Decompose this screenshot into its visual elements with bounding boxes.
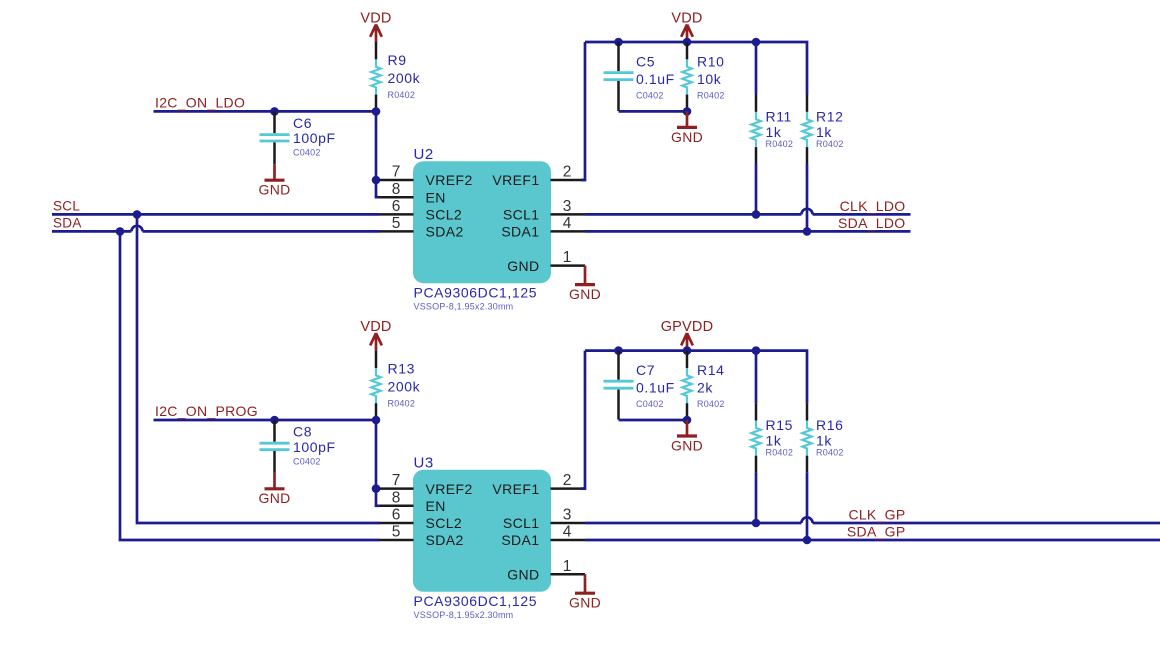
svg-text:7: 7 (392, 164, 401, 181)
svg-text:VSSOP-8,1.95x2.30mm: VSSOP-8,1.95x2.30mm (414, 301, 514, 311)
wire SDA bus vertical to U3 SDA2 (120, 231, 380, 540)
junction rail / C5 (614, 38, 623, 47)
svg-text:1k: 1k (766, 432, 782, 448)
junction rail / R11 (752, 38, 761, 47)
svg-text:GND: GND (507, 258, 539, 274)
wire net SDA_LDO (585, 230, 911, 233)
svg-text:VREF1: VREF1 (492, 481, 539, 497)
junction R14 bottom / ground (683, 416, 692, 425)
junction rail / VDD / R10 (683, 38, 692, 47)
ground symbol at U3 pin 1 (569, 574, 601, 610)
ground symbol below R10 (671, 111, 703, 144)
U2 pin 2 stub (551, 179, 586, 182)
svg-text:SDA1: SDA1 (501, 224, 539, 240)
wire net CLK_LDO with hop over R12 wire (585, 213, 801, 216)
svg-text:SDA2: SDA2 (426, 532, 464, 548)
svg-text:SCL1: SCL1 (503, 207, 540, 223)
resistor R12 1k (802, 95, 811, 164)
svg-text:SDA_GP: SDA_GP (847, 524, 906, 540)
svg-text:5: 5 (392, 524, 401, 541)
svg-text:4: 4 (563, 215, 572, 232)
svg-text:R12: R12 (816, 109, 843, 125)
svg-text:100pF: 100pF (293, 439, 336, 455)
svg-text:SDA: SDA (53, 216, 82, 231)
wire rail to R15 (755, 351, 758, 404)
wire SCL bus vertical to U3 SCL2 (137, 214, 380, 523)
svg-text:VREF2: VREF2 (426, 172, 473, 188)
wire to pin 7 VREF2 (376, 179, 380, 182)
junction rail / C7 (614, 346, 623, 355)
svg-text:5: 5 (392, 215, 401, 232)
svg-text:GND: GND (507, 566, 539, 582)
svg-text:R11: R11 (766, 109, 792, 125)
svg-text:6: 6 (392, 507, 401, 524)
svg-text:C0402: C0402 (293, 456, 321, 466)
svg-text:R0402: R0402 (766, 139, 794, 149)
junction R16 / SDA_GP (803, 536, 812, 545)
U2 pin 3 stub (551, 213, 586, 216)
svg-text:R0402: R0402 (816, 139, 844, 149)
junction R12 / SDA_LDO (803, 227, 812, 236)
capacitor C5 0.1uF (604, 42, 634, 111)
ground symbol below R14 (671, 420, 703, 453)
svg-text:I2C_ON_PROG: I2C_ON_PROG (155, 403, 258, 419)
resistor R13 200k (371, 351, 380, 420)
svg-text:R14: R14 (697, 362, 724, 378)
U3 pin 6 stub (380, 522, 414, 525)
svg-text:SCL1: SCL1 (503, 515, 540, 531)
svg-text:R10: R10 (697, 54, 724, 70)
junction R15 / CLK_GP (752, 519, 761, 528)
U2 pin 5 stub (380, 230, 414, 233)
svg-text:1k: 1k (766, 124, 782, 140)
junction at R13 bottom (372, 416, 381, 425)
wire net I2C_ON_LDO (154, 110, 377, 113)
svg-text:C0402: C0402 (636, 90, 664, 100)
svg-text:SDA_LDO: SDA_LDO (838, 215, 905, 231)
ground symbol below C6 (258, 164, 290, 197)
svg-text:EN: EN (426, 189, 446, 205)
svg-text:VDD: VDD (671, 10, 702, 26)
svg-text:1: 1 (563, 558, 572, 575)
U2 pin 1 stub (551, 264, 586, 267)
capacitor C7 0.1uF (604, 351, 634, 420)
svg-text:2: 2 (563, 472, 572, 489)
svg-text:R0402: R0402 (816, 447, 844, 457)
resistor R14 2k (682, 351, 691, 420)
resistor R10 10k (682, 42, 691, 111)
svg-text:C6: C6 (293, 115, 312, 131)
svg-text:CLK_GP: CLK_GP (848, 507, 905, 523)
wire power rail (585, 42, 807, 95)
power flag VDD (above R13) (360, 319, 391, 351)
svg-text:I2C_ON_LDO: I2C_ON_LDO (155, 95, 245, 111)
svg-text:R0402: R0402 (697, 90, 725, 100)
resistor R15 1k (751, 403, 760, 472)
svg-text:R0402: R0402 (388, 90, 416, 100)
junction at C8 top (270, 416, 279, 425)
svg-text:3: 3 (563, 198, 572, 215)
U3 pin 8 stub (380, 505, 414, 508)
svg-text:200k: 200k (388, 70, 421, 86)
resistor R16 1k (802, 403, 811, 472)
svg-text:0.1uF: 0.1uF (636, 380, 675, 396)
svg-text:EN: EN (426, 498, 446, 514)
op-chip U3 PCA9306 body (413, 470, 551, 592)
U3 pin 4 stub (551, 539, 586, 542)
wire C7 bottom to R14 bottom (619, 419, 688, 422)
U2 pin 4 stub (551, 230, 586, 233)
svg-text:SDA2: SDA2 (426, 224, 464, 240)
svg-text:6: 6 (392, 198, 401, 215)
wire R11 bottom to CLK_LDO (755, 164, 758, 215)
svg-text:1k: 1k (816, 432, 832, 448)
svg-text:2: 2 (563, 164, 572, 181)
wire to pin 7 VREF2 (376, 487, 380, 490)
svg-text:C0402: C0402 (636, 399, 664, 409)
junction at C6 top (270, 107, 279, 116)
power flag GPVDD (661, 319, 714, 351)
power flag VDD (671, 10, 702, 42)
ground symbol below C8 (258, 473, 290, 506)
U2 pin 8 stub (380, 196, 414, 199)
svg-text:R9: R9 (388, 52, 407, 68)
svg-text:1: 1 (563, 249, 572, 266)
svg-text:3: 3 (563, 507, 572, 524)
svg-text:1k: 1k (816, 124, 832, 140)
power flag VDD (above R9) (360, 10, 391, 42)
svg-text:VDD: VDD (360, 319, 391, 335)
svg-text:200k: 200k (388, 379, 421, 395)
wire R13 bottom to EN pin (376, 420, 380, 506)
svg-text:R0402: R0402 (766, 447, 794, 457)
svg-text:0.1uF: 0.1uF (636, 71, 675, 87)
svg-text:U3: U3 (414, 455, 434, 472)
svg-text:SCL2: SCL2 (426, 515, 463, 531)
svg-text:GPVDD: GPVDD (661, 319, 714, 335)
U2 pin 6 stub (380, 213, 414, 216)
junction at VREF2 branch (372, 484, 381, 493)
wire R16 bottom to SDA_GP (crosses CLK_GP) (806, 472, 809, 540)
svg-text:VSSOP-8,1.95x2.30mm: VSSOP-8,1.95x2.30mm (414, 610, 514, 620)
U3 pin 1 stub (551, 573, 586, 576)
svg-text:8: 8 (392, 489, 401, 506)
svg-text:CLK_LDO: CLK_LDO (840, 198, 906, 214)
svg-text:7: 7 (392, 472, 401, 489)
junction rail / R15 (752, 346, 761, 355)
wire R15 bottom to CLK_GP (755, 472, 758, 523)
junction SDA branch (116, 227, 125, 236)
capacitor C6 100pF (260, 111, 290, 164)
svg-text:R0402: R0402 (697, 399, 725, 409)
svg-text:10k: 10k (697, 71, 722, 87)
svg-text:C5: C5 (636, 54, 655, 70)
wire net I2C_ON_PROG (154, 419, 377, 422)
junction R10 bottom / ground (683, 107, 692, 116)
resistor R11 1k (751, 95, 760, 164)
U3 pin 7 stub (380, 487, 414, 490)
svg-text:SCL2: SCL2 (426, 207, 463, 223)
U3 pin 3 stub (551, 522, 586, 525)
svg-text:2k: 2k (697, 380, 713, 396)
svg-text:C0402: C0402 (293, 148, 321, 158)
svg-text:U2: U2 (414, 146, 434, 163)
svg-text:4: 4 (563, 524, 572, 541)
svg-text:PCA9306DC1,125: PCA9306DC1,125 (414, 285, 538, 301)
svg-text:R0402: R0402 (388, 398, 416, 408)
U3 pin 5 stub (380, 539, 414, 542)
svg-text:VREF2: VREF2 (426, 481, 473, 497)
resistor R9 200k (371, 42, 380, 111)
wire VREF1 pin 2 to rail (581, 351, 585, 489)
svg-text:VDD: VDD (360, 10, 391, 26)
junction R11 / CLK_LDO (752, 210, 761, 219)
op-chip U2 PCA9306 body (413, 161, 551, 283)
svg-text:R16: R16 (816, 417, 843, 433)
junction SCL branch (133, 210, 142, 219)
svg-text:VREF1: VREF1 (492, 172, 539, 188)
svg-text:R13: R13 (388, 361, 415, 377)
svg-text:R15: R15 (766, 417, 793, 433)
wire R9 bottom to EN pin (376, 111, 380, 197)
svg-text:C7: C7 (636, 362, 655, 378)
capacitor C8 100pF (260, 420, 290, 473)
svg-text:8: 8 (392, 181, 401, 198)
junction at VREF2 branch (372, 176, 381, 185)
svg-text:SCL: SCL (53, 199, 80, 214)
svg-text:100pF: 100pF (293, 130, 336, 146)
U3 pin 2 stub (551, 487, 586, 490)
wire C5 bottom to R10 bottom (619, 110, 688, 113)
wire R12 bottom to SDA_LDO (crosses CLK_LDO) (806, 164, 809, 232)
wire net CLK_GP with hop over R16 wire (585, 522, 801, 525)
junction at R9 bottom (372, 107, 381, 116)
U2 pin 7 stub (380, 179, 414, 182)
wire net SDA_GP (585, 539, 1160, 542)
svg-text:SDA1: SDA1 (501, 532, 539, 548)
junction rail / GPVDD / R14 (683, 346, 692, 355)
wire rail to R11 (755, 42, 758, 95)
wire net SCL (52, 213, 380, 216)
wire net SDA with hop over SCL branch (52, 230, 131, 233)
svg-text:PCA9306DC1,125: PCA9306DC1,125 (414, 593, 538, 609)
ground symbol at U2 pin 1 (569, 266, 601, 302)
wire VREF1 pin 2 to rail (581, 42, 585, 180)
wire power rail (585, 351, 807, 404)
svg-text:C8: C8 (293, 424, 312, 440)
